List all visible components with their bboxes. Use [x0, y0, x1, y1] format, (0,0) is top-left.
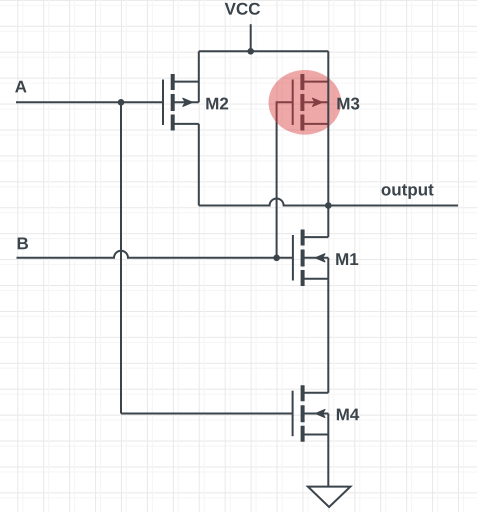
wire: input A horizontal — [16, 101, 163, 103]
wire: A bottom run to M4 gate — [121, 413, 293, 415]
wire: output line with hop over B vertical — [199, 199, 458, 206]
highlight ellipse over M3 — [269, 70, 342, 135]
transistor M2 (PMOS) — [163, 51, 199, 205]
wire: VCC top rail — [199, 50, 328, 52]
label VCC — [225, 3, 260, 15]
wire: input B horizontal with hop over A — [17, 251, 293, 258]
transistor M4 (NMOS) — [293, 385, 329, 486]
node: A junction dot — [118, 99, 125, 106]
label M2 — [206, 98, 228, 110]
label M1 — [336, 253, 358, 265]
label M4 — [337, 409, 359, 421]
label M3 — [337, 98, 359, 110]
transistor M3 (PMOS, highlighted) — [293, 74, 329, 131]
wire: VCC stub — [250, 24, 252, 51]
wire: M3 drain-source vertical over highlight — [327, 51, 329, 205]
node: output junction dot — [325, 202, 332, 209]
node: VCC junction dot — [247, 48, 254, 55]
node: B junction dot — [273, 254, 280, 261]
ground symbol — [308, 487, 351, 507]
wire: B vertical up to M3 gate — [277, 102, 293, 257]
label B — [18, 238, 28, 250]
label A — [15, 81, 26, 93]
wire: A vertical down to M4 — [120, 102, 122, 413]
transistor M1 (NMOS) — [293, 206, 328, 393]
label output — [382, 184, 434, 199]
